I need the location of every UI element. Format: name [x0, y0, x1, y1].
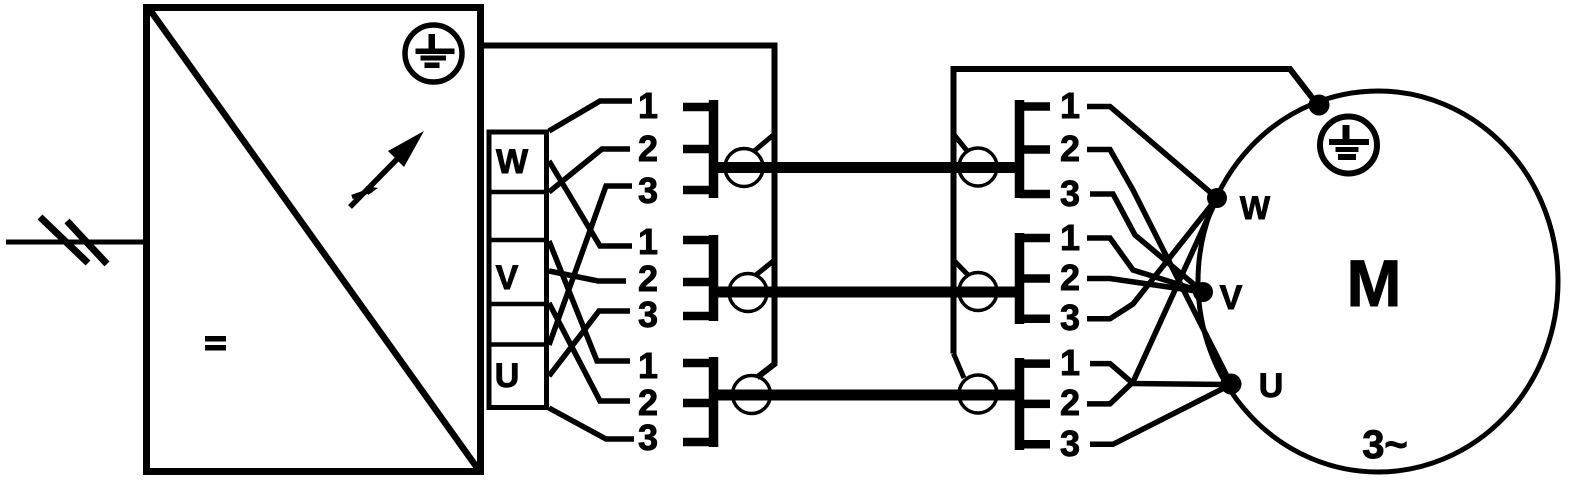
cable gland circle right 2: [959, 273, 997, 311]
motor terminal W dot: [1207, 188, 1227, 208]
left wire V-mid to lead 2-2: [549, 271, 626, 281]
svg-text:1: 1: [1060, 342, 1080, 383]
mains 3-phase slash mark 1: [40, 217, 88, 263]
svg-text:3: 3: [638, 294, 658, 335]
svg-text:1: 1: [1060, 85, 1080, 126]
inverter diagonal divider: [150, 10, 478, 469]
svg-text:2: 2: [1060, 128, 1080, 169]
svg-text:U: U: [1259, 367, 1284, 405]
left terminal bracket group 3: [683, 357, 714, 447]
right wire lead 1-1 to motor W: [1087, 107, 1231, 445]
svg-text:2: 2: [1060, 257, 1080, 298]
cable gland circle right 3: [959, 375, 997, 413]
right terminal bracket group 3: [1020, 358, 1051, 450]
cable gland circle left 1: [725, 149, 763, 187]
left wire U-bottom to lead 3-3: [549, 408, 634, 439]
svg-text:3: 3: [638, 417, 658, 458]
right shield stub to gland 2: [954, 260, 970, 276]
right wire lead 1-3 to motor V: [1090, 194, 1203, 292]
svg-text:3: 3: [1060, 423, 1080, 464]
right cable-box outline wire to motor PE: [954, 69, 1318, 354]
svg-text:2: 2: [1060, 382, 1080, 423]
motor cable 1: [709, 162, 1023, 173]
right terminal bracket group 2: [1020, 233, 1051, 324]
svg-text:W: W: [496, 143, 529, 181]
svg-text:2: 2: [638, 128, 658, 169]
left wire V-top to lead 3-1: [549, 241, 630, 361]
svg-text:3: 3: [638, 170, 658, 211]
left terminal bracket group 1: [683, 100, 714, 198]
right wire lead 3-3 to motor U: [1090, 385, 1231, 445]
wire mains supply line: [6, 240, 148, 245]
motor terminal V dot: [1193, 282, 1213, 302]
cable gland circle right 1: [959, 148, 997, 186]
right wire lead 3-2 to motor W: [1087, 198, 1217, 404]
svg-text:1: 1: [638, 85, 658, 126]
cable gland circle left 3: [733, 376, 771, 414]
right wire lead 3-1 to motor U: [1090, 364, 1225, 385]
left wire V-bottom to lead 3-2: [549, 303, 630, 401]
mains 3-phase slash mark 2: [67, 221, 107, 264]
left wire W-top to lead 1-1: [549, 101, 634, 439]
svg-text:1: 1: [638, 221, 658, 262]
left terminal bracket group 2: [683, 235, 714, 321]
right wire lead 1-2 to motor U: [1087, 150, 1231, 385]
left shield stub to gland 2: [756, 260, 775, 275]
inverter DC symbol =: [205, 336, 226, 351]
right wire lead 2-3 to motor W: [1087, 198, 1217, 319]
svg-text:V: V: [496, 259, 519, 297]
svg-text:M: M: [1347, 246, 1402, 320]
motor PE ground symbol: [1320, 117, 1377, 174]
cable gland circle left 2: [729, 274, 767, 312]
left wire U-mid to lead 2-3: [549, 311, 630, 376]
right terminal bracket group 1: [1020, 100, 1051, 198]
inverter output terminal strip: [489, 132, 547, 408]
motor cable 3: [709, 390, 1023, 401]
left wire W-bottom to lead 1-2: [549, 149, 630, 192]
svg-text:V: V: [1220, 279, 1243, 317]
motor cable 2: [709, 287, 1023, 298]
motor PE node dot: [1309, 95, 1330, 116]
inverter PE ground symbol: [405, 25, 462, 82]
svg-text:W: W: [1240, 190, 1271, 226]
motor M circle: [1198, 91, 1558, 472]
svg-text:3: 3: [1060, 173, 1080, 214]
right wire lead 2-1 to motor V: [1087, 238, 1203, 292]
right shield stub to gland 3: [954, 354, 965, 379]
left cable-box outline wire: [481, 46, 775, 378]
right shield stub to gland 1: [954, 134, 969, 152]
svg-text:3: 3: [1060, 297, 1080, 338]
left wire W-mid to lead 2-1: [549, 161, 632, 246]
inverter variable-frequency arrow: [350, 146, 410, 207]
svg-text:1: 1: [638, 345, 658, 386]
left shield stub to gland 1: [753, 134, 775, 152]
svg-text:2: 2: [638, 258, 658, 299]
left wire U-top to lead 1-3: [549, 186, 632, 345]
inverter U1 frequency inverter box: [147, 8, 481, 472]
svg-text:3~: 3~: [1362, 423, 1408, 467]
svg-text:U: U: [495, 357, 520, 395]
right wire lead 2-2 to motor V: [1087, 279, 1203, 293]
motor terminal U dot: [1221, 374, 1242, 395]
svg-text:1: 1: [1060, 217, 1080, 258]
